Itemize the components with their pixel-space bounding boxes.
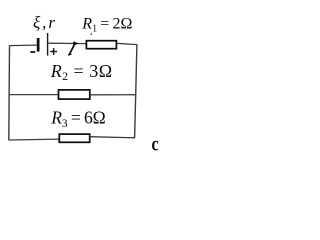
switch arrowhead [73, 41, 78, 46]
switch lever [69, 44, 74, 55]
battery negative plate (thick short) [37, 38, 40, 52]
wire: battery to R1 [48, 42, 86, 44]
resistor R3 box [59, 134, 89, 142]
svg-text:R2 = 3Ω: R2 = 3Ω [50, 61, 113, 83]
subscript stray dot [91, 33, 92, 34]
wire: bottom branch right [90, 137, 135, 138]
figure label c [152, 133, 159, 155]
svg-text:R3 = 6Ω: R3 = 6Ω [50, 108, 105, 130]
wire: top left horizontal to battery [9, 44, 37, 47]
svg-text:R1 = 2Ω: R1 = 2Ω [81, 16, 132, 35]
wire: middle branch left [9, 94, 58, 96]
wire: right vertical [135, 44, 137, 138]
wire: left vertical [8, 46, 11, 140]
battery plus label [50, 48, 57, 55]
svg-text:c: c [152, 133, 159, 155]
battery minus label [30, 51, 35, 53]
svg-text:ξ,r: ξ,r [33, 13, 57, 32]
wire: bottom branch left [9, 138, 60, 141]
resistor R2 box [59, 90, 90, 99]
resistor R1 box [86, 41, 116, 49]
wire: R1 to top-right corner [117, 43, 137, 44]
wire: middle branch right [90, 94, 136, 96]
battery positive plate (thin long) [47, 33, 49, 56]
switch lever foot [68, 53, 71, 56]
